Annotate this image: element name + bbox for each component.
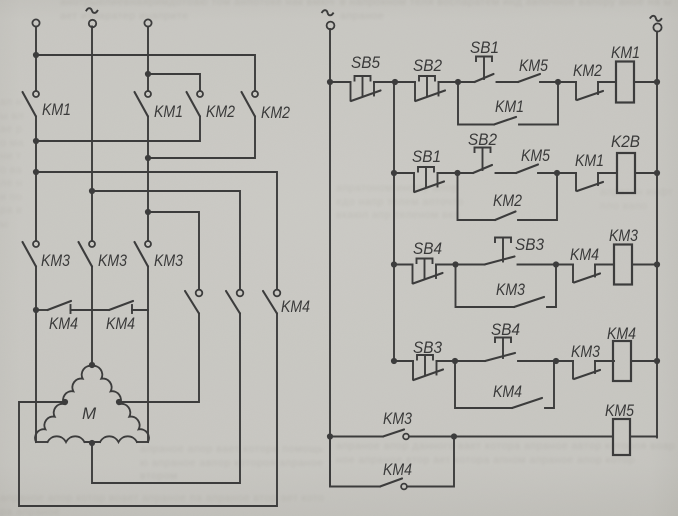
node A2 — [454, 170, 460, 176]
node L1-H1 — [33, 52, 39, 58]
contactor contact KM4 (pole c3) — [263, 290, 280, 314]
svg-text:KM4: KM4 — [607, 324, 636, 343]
wire star bus seg1 — [36, 309, 48, 311]
contactor contact KM1 (pole 2) — [135, 91, 152, 117]
wire L3 top — [147, 27, 149, 92]
wire L1 lower — [35, 267, 37, 443]
svg-text:KM5: KM5 — [605, 401, 634, 420]
node rail-rung5 — [327, 433, 333, 439]
wire rung1 seg3 — [439, 81, 475, 83]
svg-text:KM4: KM4 — [383, 460, 412, 479]
contact KM3 terminal — [403, 434, 409, 440]
wire rung4 seg4 — [595, 360, 614, 362]
node delta bottom tap — [89, 440, 95, 446]
wire rung5 seg2 — [409, 436, 613, 438]
wire rung2 seg2 — [438, 172, 474, 174]
contactor contact KM3 (pole 3) — [135, 241, 152, 267]
contactor contact KM1 (pole 1) — [23, 91, 40, 117]
wire rung1 seg6 — [598, 81, 616, 83]
wire rung3 seg1 — [394, 264, 413, 266]
contact KM2 (NC interlock) — [576, 82, 603, 100]
node rail-rung1 right — [654, 79, 660, 85]
wire H1 to KM2b — [36, 55, 255, 91]
contactor contact KM2 (pole 2) — [242, 91, 259, 117]
coil KM3 — [614, 245, 632, 285]
contact KM3 (NC interlock) — [573, 361, 600, 379]
wire rung3 seg2 — [436, 264, 485, 266]
svg-text:KM3: KM3 — [154, 251, 183, 270]
wire rung2 seg3 — [496, 172, 517, 174]
svg-text:KM4: KM4 — [49, 314, 78, 333]
pushbutton SB5 (NC) — [351, 76, 381, 101]
svg-text:KM5: KM5 — [519, 56, 548, 75]
contact KM4 (star pole b) blade — [109, 301, 133, 310]
wire H7 to KM4 pole c2 — [92, 191, 240, 289]
wire L3 middle — [147, 117, 149, 242]
node rail-rung2 right — [654, 170, 660, 176]
contactor contact KM3 (pole 2) — [79, 241, 96, 267]
node rail-rung4 — [391, 358, 397, 364]
node L3-H6 — [145, 209, 151, 215]
wire rung3 seg5 — [632, 264, 657, 266]
wire L3 lower — [147, 267, 149, 443]
contactor contact KM4 (pole c1) — [185, 290, 202, 314]
wire KM1 holding branch right — [519, 82, 558, 125]
contact KM3 (NO aux) — [383, 430, 404, 437]
wire L1 middle — [35, 117, 37, 242]
contact KM2 (NO holding) — [495, 212, 516, 221]
svg-text:KM2: KM2 — [206, 102, 235, 121]
wire KM4 holding branch right — [545, 361, 554, 408]
svg-text:SB4: SB4 — [491, 320, 520, 339]
ac supply terminal L3 — [144, 19, 151, 26]
wire KM3 holding branch — [456, 265, 515, 308]
right rail bottom corner — [656, 437, 658, 438]
contact KM4 (NO aux) — [380, 479, 402, 487]
pushbutton SB4 (NC) — [413, 259, 443, 284]
control rail terminal right — [653, 23, 661, 31]
svg-text:KM3: KM3 — [41, 251, 70, 270]
wire rung4 seg2 — [437, 360, 486, 362]
wire c2 lower to delta bottom tap — [92, 314, 240, 484]
wire rung1 seg2 — [374, 81, 415, 83]
svg-text:KM3: KM3 — [609, 226, 638, 245]
coil KM1 — [616, 62, 634, 103]
wire H3 KM2a bottom — [36, 117, 200, 142]
svg-text:KM2: KM2 — [573, 61, 602, 80]
pushbutton SB4 (NO) — [485, 338, 515, 362]
contact KM1 (NC interlock) — [576, 173, 603, 191]
wire KM2 holding branch right — [518, 173, 557, 220]
wire rung3 seg4 — [595, 264, 614, 266]
contactor contact KM3 (pole 1) — [23, 241, 40, 267]
svg-text:M: M — [82, 404, 97, 423]
svg-text:KM1: KM1 — [42, 100, 71, 119]
pushbutton SB1 (NC) — [414, 167, 444, 192]
wire H4 to KM4 pole c3 — [36, 172, 277, 289]
pushbutton SB1 (NO) — [475, 57, 494, 83]
contact KM5 (NO aux) — [516, 165, 538, 174]
node delta right tap — [116, 399, 122, 405]
contact KM4 (star pole a) blade — [48, 301, 72, 310]
svg-text:KM2: KM2 — [261, 103, 290, 122]
wire rung1 seg7 — [634, 81, 657, 83]
wire rung2 seg5 — [598, 172, 617, 174]
node L1-H4 — [33, 169, 39, 175]
svg-text:KM4: KM4 — [281, 297, 310, 316]
node rail-rung4 right — [654, 358, 660, 364]
svg-text:KM2: KM2 — [493, 191, 522, 210]
node delta apex — [89, 362, 95, 368]
node A4 — [452, 358, 458, 364]
svg-text:SB2: SB2 — [413, 56, 442, 75]
ac supply terminal L2 — [89, 20, 96, 27]
contact KM4 terminal — [401, 484, 407, 490]
wire branch to KM2a — [148, 74, 200, 91]
wire rung1 seg4 — [497, 81, 519, 83]
svg-text:SB2: SB2 — [468, 130, 497, 149]
wire rung4 seg5 — [631, 360, 657, 362]
svg-text:K2B: K2B — [611, 132, 640, 151]
wire H5 KM2b bottom — [148, 117, 255, 159]
node star bus L1 — [33, 307, 39, 313]
svg-text:KM3: KM3 — [98, 251, 127, 270]
svg-text:SB4: SB4 — [413, 239, 442, 258]
node B4 — [553, 358, 559, 364]
node A3 — [452, 261, 458, 267]
svg-text:SB3: SB3 — [515, 235, 544, 254]
wire rung1 seg1 — [330, 81, 351, 83]
svg-text:KM4: KM4 — [106, 314, 135, 333]
svg-text:KM1: KM1 — [575, 151, 604, 170]
coil KM2 (K2B) — [617, 153, 635, 193]
contactor contact KM2 (pole 1) — [187, 91, 204, 117]
left control rail — [329, 29, 331, 487]
svg-text:SB5: SB5 — [351, 53, 380, 72]
svg-text:SB3: SB3 — [413, 338, 442, 357]
wire KM4 holding branch — [455, 361, 512, 408]
wire KM3 holding branch right — [547, 265, 556, 308]
svg-text:KM1: KM1 — [154, 102, 183, 121]
wire rung6 seg2 — [407, 439, 454, 487]
motor M delta winding — [35, 366, 149, 442]
svg-text:SB1: SB1 — [470, 38, 499, 57]
svg-text:KM4: KM4 — [570, 245, 599, 264]
contact KM4 (star pole b) stop — [131, 305, 133, 313]
ac source tilde (right rail) — [650, 15, 662, 21]
ac supply terminal L1 — [32, 19, 39, 26]
node L2-H7 — [89, 188, 95, 194]
wire c1 lower to delta right tap — [119, 314, 199, 403]
node C1 — [555, 79, 561, 85]
wire c3 lower to delta left tap — [19, 314, 277, 507]
node delta left tap — [62, 399, 68, 405]
node L3-H5 — [145, 155, 151, 161]
control rail terminal left — [327, 22, 335, 30]
pushbutton SB3 (NO) — [485, 238, 515, 265]
wire star bus seg2 — [71, 309, 110, 311]
svg-text:KM1: KM1 — [611, 43, 640, 62]
right control rail — [656, 32, 658, 437]
node C2 — [554, 170, 560, 176]
wire L2 lower — [91, 267, 93, 364]
node L1-H3 — [33, 138, 39, 144]
svg-text:KM3: KM3 — [496, 280, 525, 299]
wire rung5 seg3 — [630, 436, 657, 438]
wire rung2 seg1 — [394, 172, 414, 174]
svg-text:KM4: KM4 — [493, 382, 522, 401]
contact KM4 (NO holding) — [512, 398, 542, 408]
wire KM2 holding branch — [458, 173, 496, 220]
contact KM1 (NO holding) — [494, 117, 516, 125]
node rail-rung2 — [391, 170, 397, 176]
wire rung2 seg6 — [635, 172, 657, 174]
wire rung4 seg3 — [518, 360, 573, 362]
wire rung4 seg1 — [394, 360, 413, 362]
wire rung3 seg3 — [518, 264, 574, 266]
node rail-rung3 right — [654, 261, 660, 267]
coil KM4 — [613, 341, 631, 381]
contact KM3 (NO holding) — [514, 297, 544, 307]
wire L2 vertical — [91, 27, 93, 242]
pushbutton SB2 (NC) — [415, 76, 445, 101]
node B1 — [455, 79, 461, 85]
wire KM1 holding branch — [458, 82, 494, 125]
wire rung6 from rail — [330, 437, 380, 487]
coil KM5 — [613, 419, 630, 455]
sub-rail from rung1 — [393, 82, 395, 361]
wire rung2 seg4 — [538, 172, 576, 174]
pushbutton SB3 (NC) — [413, 355, 443, 380]
svg-text:KM3: KM3 — [383, 409, 412, 428]
wire star bus seg3 — [132, 309, 148, 311]
node rail-rung1 — [327, 79, 333, 85]
contact KM5 (NO aux) — [518, 74, 540, 82]
node L3 branch — [145, 71, 151, 77]
svg-text:KM3: KM3 — [571, 342, 600, 361]
pushbutton SB2 (NO) — [473, 148, 492, 174]
contact KM4 (NC interlock) — [573, 265, 600, 283]
svg-text:KM5: KM5 — [521, 146, 550, 165]
wire rung1 seg5 — [540, 81, 576, 83]
ac source tilde (above L2) — [86, 8, 97, 14]
svg-text:KM1: KM1 — [495, 97, 524, 116]
wire H6 to KM4 pole c1 — [148, 212, 199, 289]
contactor contact KM4 (pole c2) — [226, 290, 243, 314]
wire L1 top — [35, 27, 37, 92]
node rail-rung3 — [391, 261, 397, 267]
node D5 — [451, 433, 457, 439]
svg-text:SB1: SB1 — [412, 147, 441, 166]
node A1 — [392, 79, 398, 85]
wire rung5 seg1 — [330, 436, 383, 438]
ac source tilde (left rail) — [322, 10, 334, 16]
node B3 — [553, 261, 559, 267]
contact KM4 (star pole a) stop — [70, 305, 72, 313]
